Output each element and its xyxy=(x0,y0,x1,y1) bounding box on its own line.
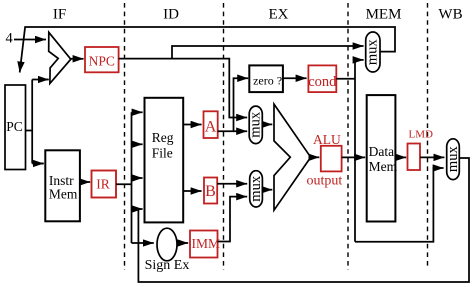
svg-text:IR: IR xyxy=(96,177,110,192)
svg-text:zero ?: zero ? xyxy=(253,74,282,88)
wire ALU output to ALU output register xyxy=(309,156,319,158)
register NPC xyxy=(85,47,119,72)
register PC xyxy=(5,85,26,170)
box zero? xyxy=(249,65,283,92)
register A xyxy=(204,111,218,138)
stage boundary IF/ID xyxy=(124,3,126,270)
wire ALU bypass loop to WB mux input 2 xyxy=(355,168,444,242)
wire IR to Sign Ex xyxy=(132,242,154,244)
svg-text:cond: cond xyxy=(308,74,337,90)
arrowhead into Instr Mem xyxy=(36,163,44,165)
mux MEM mux xyxy=(366,32,380,72)
wire cond output to MEM mux select xyxy=(336,78,355,80)
svg-text:A: A xyxy=(205,119,217,136)
svg-text:IMM: IMM xyxy=(192,236,221,251)
svg-text:mux: mux xyxy=(364,39,380,66)
svg-text:LMD: LMD xyxy=(409,129,434,141)
stage boundary EX/MEM xyxy=(347,3,349,270)
wire ALU output register to Data Mem xyxy=(342,156,366,158)
ALU xyxy=(274,104,311,210)
svg-text:mux: mux xyxy=(445,146,461,173)
svg-text:mux: mux xyxy=(248,111,264,138)
svg-text:File: File xyxy=(152,146,173,161)
wire write-back to Reg File write port xyxy=(138,158,469,282)
svg-text:Data: Data xyxy=(369,144,394,159)
register ALU output xyxy=(321,146,342,172)
mux EX mux2 xyxy=(250,171,263,207)
register B xyxy=(204,178,217,204)
wire A branch to zero? xyxy=(234,78,249,131)
wire zero? to cond xyxy=(283,77,307,79)
svg-text:mux: mux xyxy=(248,175,264,202)
svg-text:ALU: ALU xyxy=(313,132,341,147)
wire next-PC feedback: MEM mux output to PC xyxy=(20,27,395,73)
box cond xyxy=(308,65,336,92)
svg-text:output: output xyxy=(307,173,343,188)
memory Data Mem xyxy=(367,95,396,221)
register IMM xyxy=(190,231,218,258)
svg-text:IF: IF xyxy=(53,7,66,23)
stage boundary ID/EX xyxy=(223,3,225,270)
svg-text:ID: ID xyxy=(163,7,179,23)
wire IR to Reg File read port 1 xyxy=(132,111,143,113)
wire LMD to WB mux input 1 xyxy=(420,156,444,158)
wire Sign Ex to IMM xyxy=(177,242,188,244)
register IR xyxy=(92,171,117,198)
register file Reg File xyxy=(145,98,184,223)
wire Instr Mem output to IR xyxy=(80,181,90,183)
svg-text:4: 4 xyxy=(6,31,14,47)
wire NPC branch up to MEM mux input 1 xyxy=(172,46,364,59)
wire IR to Reg File port 3 xyxy=(132,177,143,179)
arrowhead into adder input 2 xyxy=(40,79,49,81)
svg-text:NPC: NPC xyxy=(89,54,115,69)
wire adder output to NPC xyxy=(71,58,84,60)
svg-text:MEM: MEM xyxy=(366,7,402,23)
svg-text:Sign Ex: Sign Ex xyxy=(145,258,190,273)
wire NPC output to EX mux1 input 1 xyxy=(119,59,248,118)
wire Data Mem to LMD xyxy=(395,156,406,158)
mux WB mux xyxy=(447,139,460,180)
wire Reg File to B xyxy=(183,190,201,192)
svg-text:B: B xyxy=(205,183,216,200)
svg-text:EX: EX xyxy=(269,7,289,23)
wire PC output to adder input 2 and Instr Mem xyxy=(25,80,47,164)
svg-text:Mem: Mem xyxy=(49,187,78,202)
svg-text:WB: WB xyxy=(438,7,462,23)
svg-text:PC: PC xyxy=(6,119,23,134)
wire Reg File to A xyxy=(183,124,201,126)
wire IMM output to EX mux2 input 2 xyxy=(218,197,248,242)
ellipse Sign Ex xyxy=(157,228,177,261)
wire 4 to adder input 1 xyxy=(14,39,46,41)
wire branch target to MEM mux input 2 xyxy=(355,59,364,61)
svg-text:Reg: Reg xyxy=(152,130,174,145)
wire ALU result bypass vertical xyxy=(354,60,356,242)
wire EX mux1 output to ALU xyxy=(262,123,272,125)
mux EX mux1 xyxy=(249,106,262,144)
stage boundary MEM/WB xyxy=(427,3,429,269)
wire B output to EX mux2 input 1 xyxy=(217,183,247,185)
register LMD xyxy=(408,144,421,171)
wire EX mux2 output to ALU xyxy=(262,189,272,191)
wire A output to EX mux1 input 2 xyxy=(218,130,248,132)
svg-text:Mem: Mem xyxy=(369,159,398,174)
memory Instr Mem xyxy=(45,150,80,221)
wire IR to Reg File read port 2 xyxy=(132,143,143,145)
adder (PC+4) xyxy=(49,32,71,83)
wire IR output bus xyxy=(116,112,132,243)
